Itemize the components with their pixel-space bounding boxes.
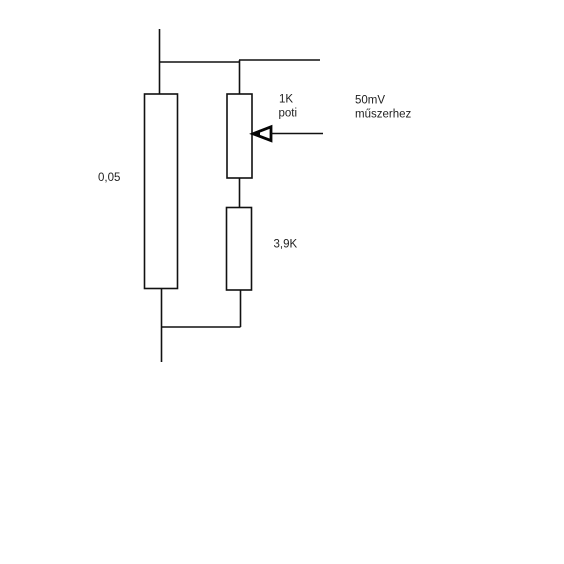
wire poti to resistor 3,9K xyxy=(239,178,241,208)
svg-text:poti: poti xyxy=(279,108,298,120)
potentiometer wiper arrowhead xyxy=(253,127,271,141)
wire top supply vertical xyxy=(159,29,161,61)
wire 3,9K bottom drop xyxy=(240,290,242,327)
wire top horizontal bus right segment xyxy=(239,59,320,61)
svg-text:0,05: 0,05 xyxy=(98,172,120,184)
potentiometer 1K body xyxy=(227,94,252,178)
wire left branch down to shunt resistor xyxy=(159,61,161,94)
wire bottom left vertical to output xyxy=(161,289,163,363)
wire top horizontal bus left segment xyxy=(159,61,240,63)
svg-text:műszerhez: műszerhez xyxy=(355,109,411,121)
resistor 3,9K body xyxy=(227,208,252,291)
wire right branch down to poti xyxy=(239,60,241,94)
potentiometer wiper arrowhead tip fill xyxy=(252,130,260,138)
wire bottom horizontal return xyxy=(162,326,241,328)
wire wiper output xyxy=(271,133,323,135)
resistor 0,05 shunt body xyxy=(145,94,178,289)
svg-text:1K: 1K xyxy=(279,94,293,106)
svg-text:50mV: 50mV xyxy=(355,95,385,107)
svg-text:3,9K: 3,9K xyxy=(274,239,298,251)
